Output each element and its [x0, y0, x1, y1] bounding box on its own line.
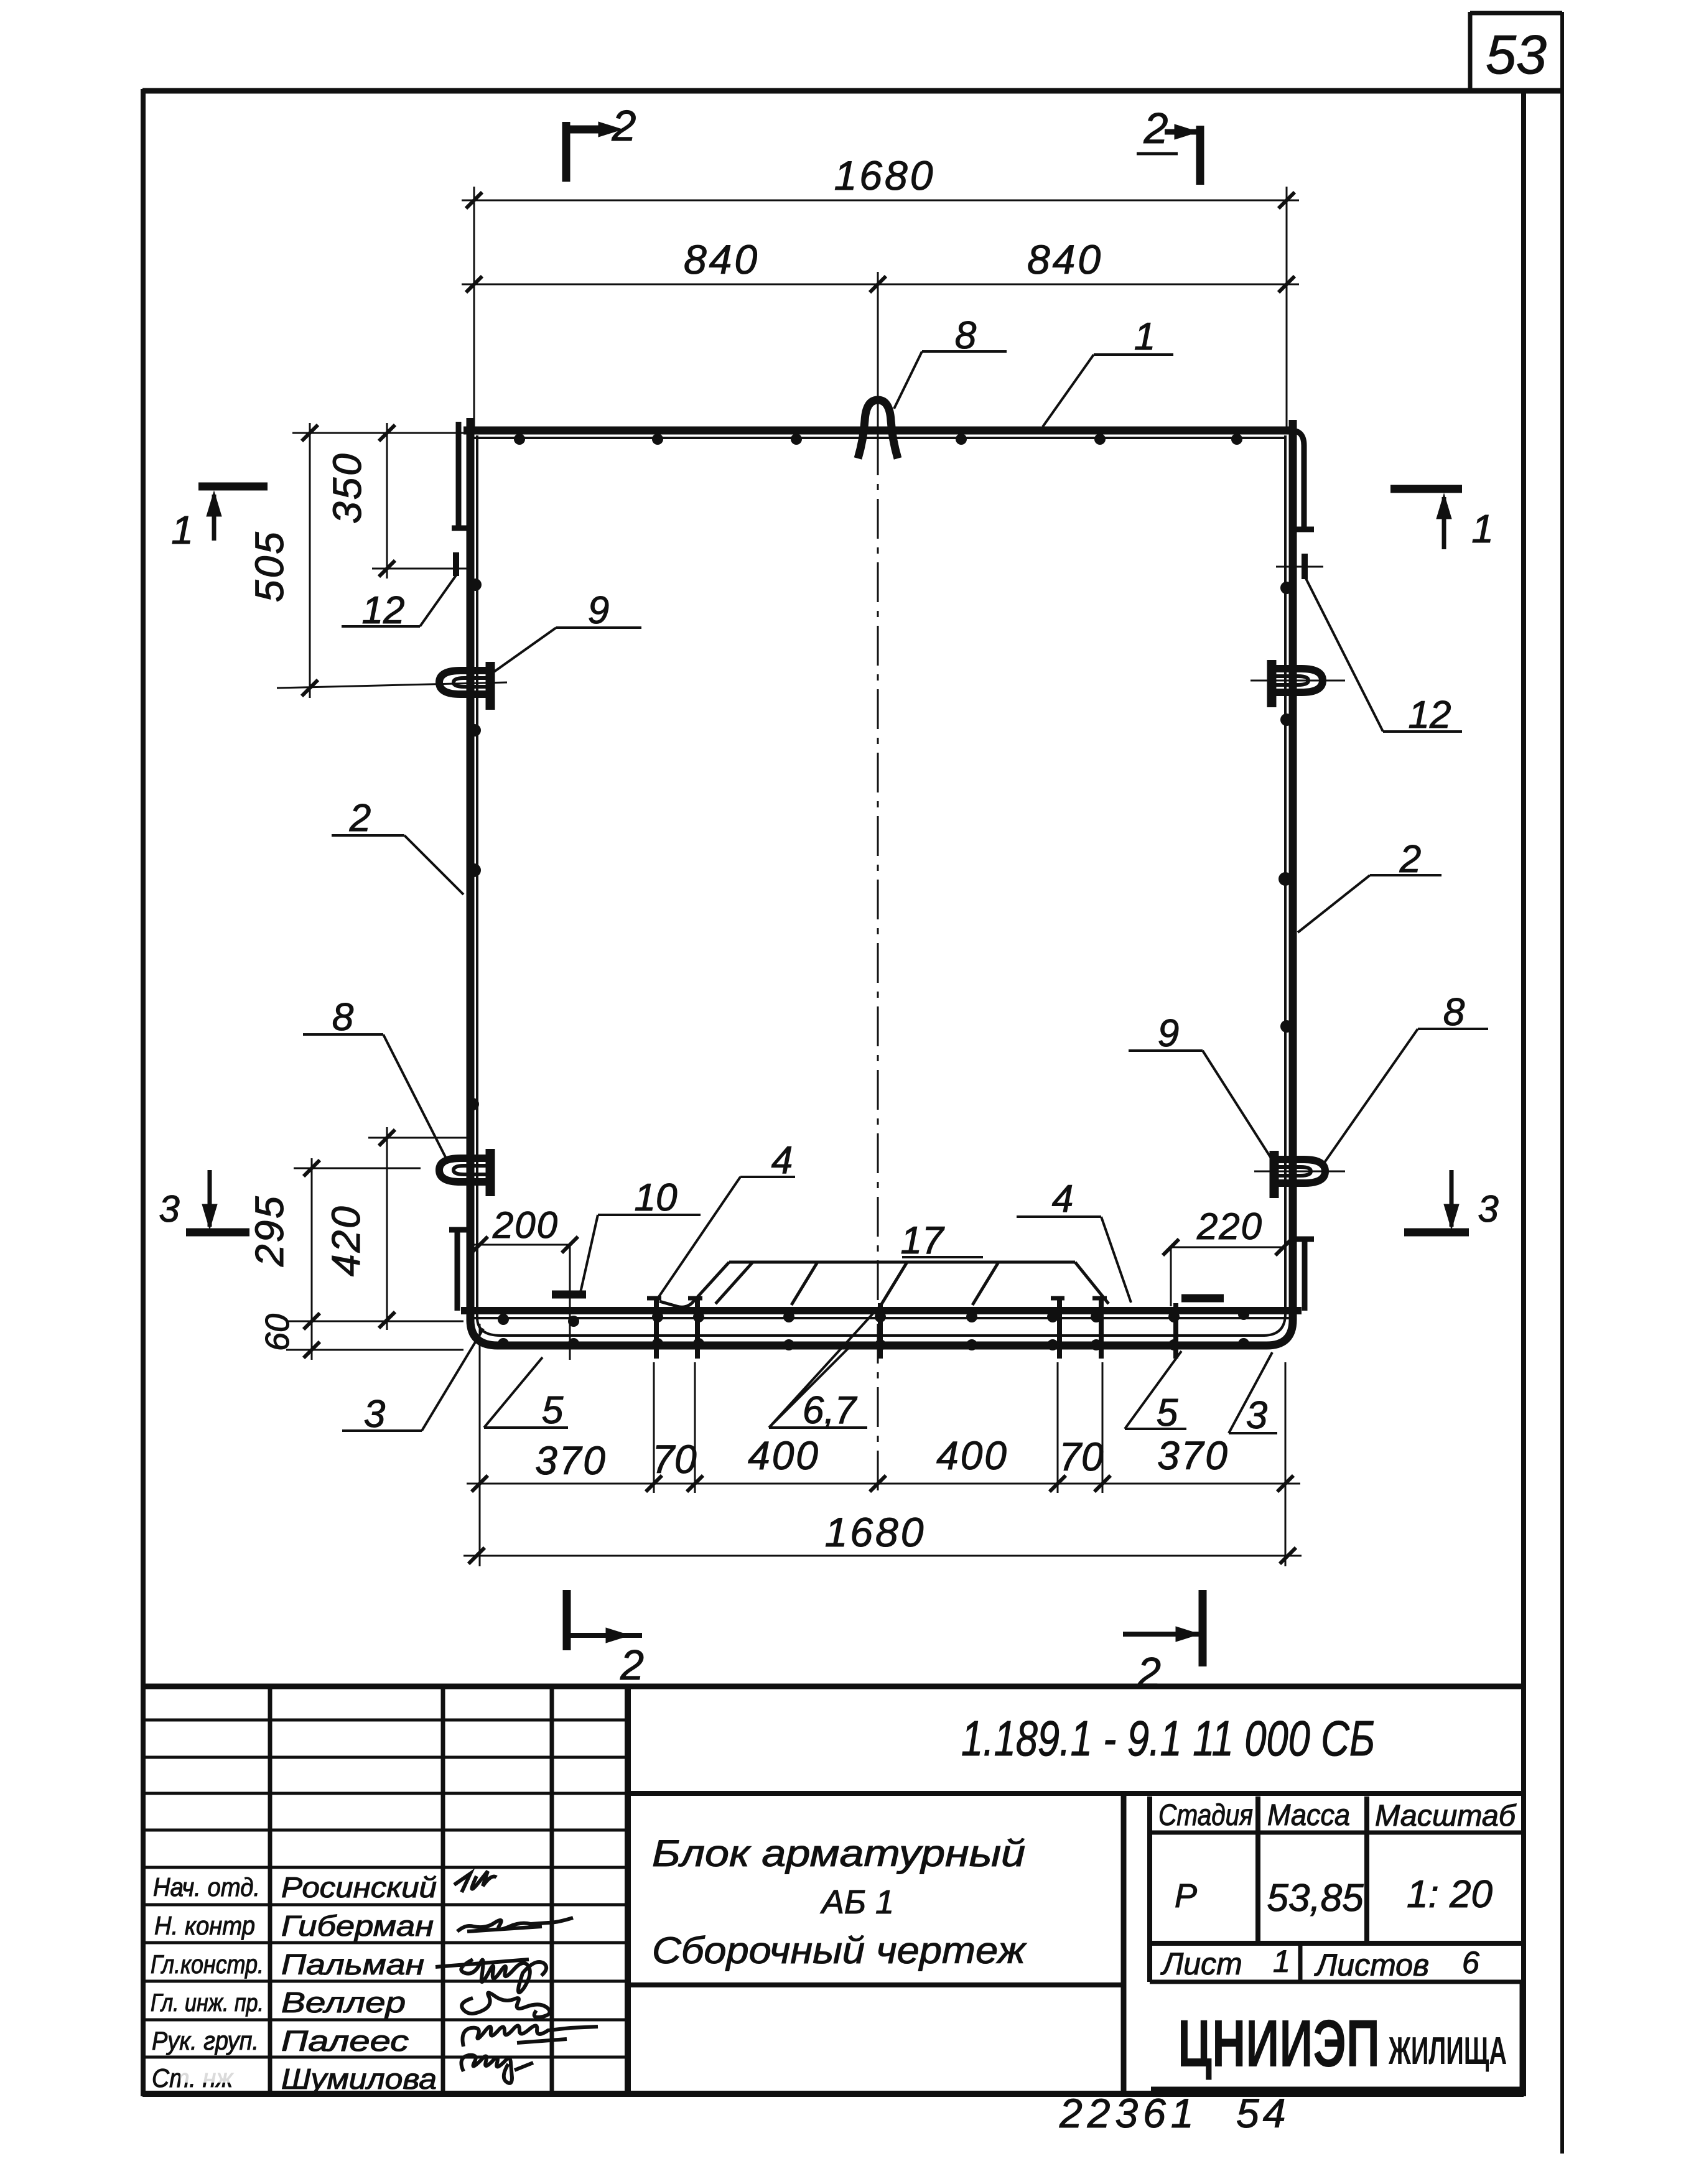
- svg-text:350: 350: [325, 452, 370, 524]
- svg-text:Лист: Лист: [1160, 1946, 1242, 1981]
- svg-text:Масштаб: Масштаб: [1375, 1800, 1517, 1833]
- svg-text:Шумилова: Шумилова: [281, 2063, 437, 2095]
- svg-text:400: 400: [748, 1433, 820, 1478]
- svg-text:2: 2: [612, 101, 636, 150]
- svg-text:370: 370: [535, 1438, 607, 1483]
- svg-text:Стадия: Стадия: [1158, 1799, 1253, 1832]
- svg-text:4: 4: [771, 1139, 793, 1182]
- svg-text:Гиберман: Гиберман: [281, 1910, 434, 1942]
- svg-text:6: 6: [1462, 1945, 1479, 1980]
- svg-text:840: 840: [684, 236, 760, 282]
- svg-text:Веллер: Веллер: [281, 1986, 406, 2019]
- svg-text:3: 3: [1478, 1188, 1498, 1230]
- svg-text:9: 9: [1158, 1012, 1179, 1055]
- svg-text:Н. контр: Н. контр: [154, 1911, 255, 1940]
- svg-text:200: 200: [492, 1204, 559, 1246]
- svg-text:60: 60: [259, 1314, 296, 1351]
- svg-text:2: 2: [620, 1642, 644, 1689]
- svg-text:53,85: 53,85: [1267, 1877, 1364, 1920]
- svg-text:3: 3: [1246, 1394, 1267, 1437]
- svg-text:5: 5: [1157, 1392, 1178, 1434]
- svg-text:12: 12: [362, 589, 405, 632]
- svg-text:1680: 1680: [825, 1509, 926, 1555]
- svg-text:1680: 1680: [834, 152, 936, 198]
- svg-text:Блок арматурный: Блок арматурный: [652, 1833, 1025, 1874]
- svg-text:2: 2: [1143, 104, 1168, 152]
- svg-text:Палеес: Палеес: [281, 2025, 409, 2057]
- svg-text:2: 2: [1137, 1649, 1161, 1696]
- svg-text:8: 8: [955, 314, 977, 357]
- svg-text:8: 8: [1443, 991, 1465, 1034]
- svg-text:Масса: Масса: [1267, 1799, 1350, 1832]
- svg-text:420: 420: [324, 1204, 368, 1276]
- svg-text:1: 1: [1134, 315, 1155, 358]
- svg-text:22361: 22361: [1059, 2090, 1199, 2136]
- svg-text:295: 295: [247, 1194, 292, 1267]
- svg-text:Рук. груп.: Рук. груп.: [152, 2026, 259, 2055]
- svg-text:220: 220: [1196, 1206, 1263, 1247]
- svg-text:2: 2: [1399, 838, 1421, 881]
- svg-text:Гл.констр.: Гл.констр.: [151, 1949, 264, 1979]
- svg-text:400: 400: [936, 1433, 1008, 1478]
- svg-text:1: 20: 1: 20: [1407, 1873, 1493, 1916]
- svg-text:Сборочный чертеж: Сборочный чертеж: [652, 1930, 1027, 1971]
- svg-text:1: 1: [1471, 506, 1494, 551]
- svg-text:370: 370: [1157, 1433, 1229, 1478]
- svg-text:АБ 1: АБ 1: [820, 1884, 894, 1921]
- svg-text:Пальман: Пальман: [281, 1948, 424, 1981]
- svg-text:3: 3: [159, 1188, 179, 1230]
- svg-text:70: 70: [1059, 1434, 1104, 1479]
- svg-text:8: 8: [332, 996, 354, 1039]
- svg-text:Р: Р: [1175, 1877, 1197, 1915]
- svg-text:10: 10: [635, 1176, 678, 1219]
- svg-text:1: 1: [1273, 1944, 1290, 1979]
- svg-text:4: 4: [1052, 1178, 1073, 1220]
- svg-text:Росинский: Росинский: [281, 1871, 437, 1903]
- svg-text:5: 5: [542, 1389, 564, 1432]
- svg-text:6,7: 6,7: [803, 1389, 858, 1432]
- svg-text:840: 840: [1027, 236, 1103, 282]
- svg-text:53: 53: [1486, 24, 1547, 85]
- svg-text:54: 54: [1236, 2090, 1289, 2136]
- svg-text:2: 2: [349, 797, 371, 840]
- svg-text:ЖИЛИЩА: ЖИЛИЩА: [1388, 2030, 1507, 2073]
- svg-text:Нач. отд.: Нач. отд.: [153, 1872, 260, 1902]
- svg-text:1.189.1 - 9.1 11 000 СБ: 1.189.1 - 9.1 11 000 СБ: [961, 1711, 1375, 1766]
- svg-text:Гл. инж. пр.: Гл. инж. пр.: [151, 1989, 264, 2017]
- svg-text:1: 1: [171, 508, 193, 552]
- svg-text:12: 12: [1409, 694, 1451, 737]
- svg-text:Листов: Листов: [1314, 1948, 1429, 1982]
- svg-text:ЦНИИЭП: ЦНИИЭП: [1178, 2005, 1380, 2081]
- svg-text:17: 17: [901, 1219, 945, 1262]
- svg-text:70: 70: [652, 1437, 697, 1482]
- svg-text:9: 9: [588, 589, 609, 632]
- svg-text:3: 3: [364, 1393, 385, 1436]
- svg-text:505: 505: [247, 530, 292, 602]
